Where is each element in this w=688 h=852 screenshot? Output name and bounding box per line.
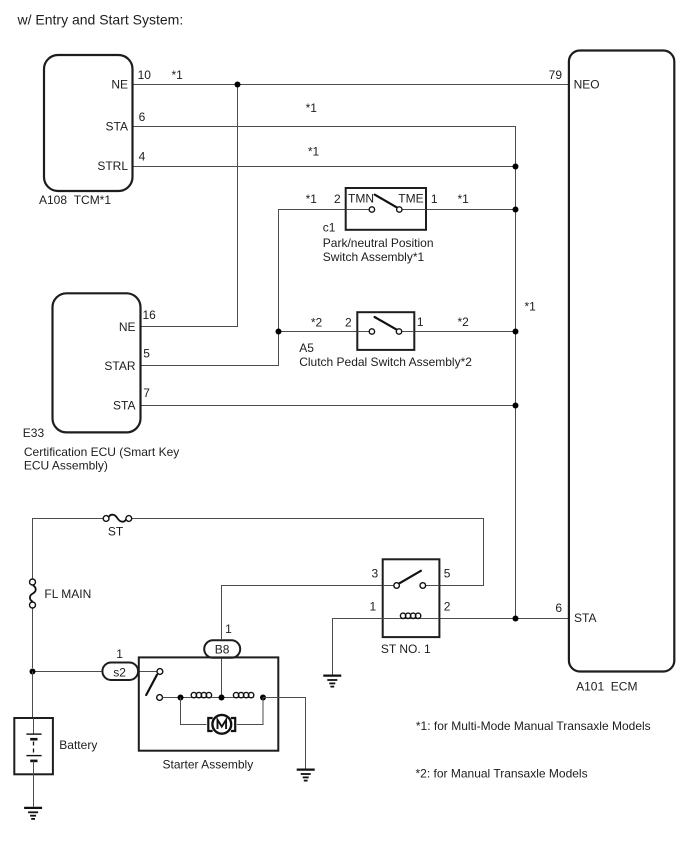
wire node down to battery [32,672,34,720]
svg-text:*2: *2 [311,316,323,330]
wire relay pin 1 to ground G3 [333,619,383,675]
svg-text:STA: STA [113,399,135,413]
relay coil wire [383,618,440,620]
svg-text:c1: c1 [323,221,336,235]
contact right [396,329,401,334]
svg-text:Switch Assembly*1: Switch Assembly*1 [323,250,425,264]
svg-text:6: 6 [139,110,146,124]
svg-text:2: 2 [444,599,451,613]
wire from E33 STAR pin 5 up to Park/neutral switch pin 2 [141,210,346,366]
lever [375,317,397,329]
svg-text:6: 6 [555,601,562,615]
svg-text:Certification ECU (Smart Key: Certification ECU (Smart Key [24,445,179,459]
svg-text:STAR: STAR [104,359,135,373]
connector B8 [204,640,240,658]
relay contact right [420,583,426,589]
svg-text:5: 5 [143,346,150,360]
wire STA bus to ECM pin 6 and relay pin 2 [439,618,569,620]
wire from battery node to s2 [33,671,104,673]
fuse s2 [102,663,138,681]
fuse ST [103,515,132,522]
node A junction on NE wire [235,82,241,88]
svg-text:*2: for Manual Transaxle Model: *2: for Manual Transaxle Models [416,767,588,781]
ECU A101 ECM [569,51,674,672]
wire left node down to motor [181,698,207,725]
svg-text:A5: A5 [299,341,314,355]
svg-text:2: 2 [334,192,341,206]
motor M1 starter motor [208,715,235,734]
connector A108 TCM [44,55,133,191]
node junction STA bus to ECM [513,616,519,622]
svg-text:1: 1 [225,622,232,636]
relay coil [400,613,405,618]
svg-text:NEO: NEO [574,77,600,91]
svg-text:*1: *1 [525,299,537,313]
node junction E33 STA on bus [513,403,519,409]
wire B8 down to starter winding node [221,658,223,698]
wire battery positive riser and ST feed [33,519,104,580]
switch c1 Park/neutral Position Switch Assembly [346,188,426,230]
svg-text:w/ Entry and Start System:: w/ Entry and Start System: [17,12,184,28]
svg-text:1: 1 [431,192,438,206]
svg-text:2: 2 [345,316,352,330]
svg-text:NE: NE [119,320,136,334]
svg-text:STA: STA [106,119,128,133]
svg-text:16: 16 [143,308,157,322]
relay ST NO. 1 [383,559,440,637]
fusible link FL MAIN [30,579,36,668]
starter assembly box [139,657,278,750]
svg-text:*1: *1 [172,68,184,82]
wire clutch switch pin 1 to vertical bus [414,331,515,333]
svg-text:79: 79 [549,68,563,82]
wire NE from TCM pin 10 to ECM pin 79 [133,84,569,86]
node junction clutch pin1 on bus [513,329,519,335]
svg-text:STRL: STRL [97,159,128,173]
node battery/s2 junction [30,669,36,675]
wire contact to coils [163,697,191,699]
svg-text:1: 1 [370,599,377,613]
svg-text:*1: *1 [306,101,318,115]
wire from NE node down to E33 NE pin 16 [141,85,238,327]
svg-text:TMN: TMN [348,191,374,205]
svg-text:1: 1 [417,315,424,329]
wire clutch switch pin 2 to node on STAR riser [279,331,358,333]
svg-text:TME: TME [398,191,423,205]
wire between coils [212,697,233,699]
contact left [369,329,374,334]
pull-in coil [191,692,212,697]
svg-text:ST NO. 1: ST NO. 1 [381,642,431,656]
svg-text:*1: *1 [458,192,470,206]
wire STA from TCM pin 6 to vertical bus [133,127,516,619]
svg-text:B8: B8 [215,642,230,656]
wire right node to ground G2 [263,698,306,769]
wire Park/neutral switch pin 1 to vertical bus [426,209,516,211]
wire STRL from TCM pin 4 to vertical bus [133,166,516,168]
svg-text:7: 7 [143,386,150,400]
svg-text:A108 TCM*1: A108 TCM*1 [39,193,111,207]
svg-text:Clutch Pedal Switch Assembly*2: Clutch Pedal Switch Assembly*2 [299,355,472,369]
svg-text:10: 10 [138,68,152,82]
wire right node down to motor [237,698,263,725]
node junction STRL on bus [513,164,519,170]
svg-text:Battery: Battery [59,738,97,752]
battery [14,718,53,774]
ground G1 (battery) [24,808,42,819]
ground G2 (starter) [297,770,315,781]
wire battery negative to ground G1 [33,774,35,807]
node junction clutch branch on STAR riser [276,329,282,335]
svg-text:E33: E33 [23,426,45,440]
lever [375,195,397,208]
svg-text:Starter Assembly: Starter Assembly [163,758,254,772]
relay lever [399,571,421,584]
svg-text:*1: *1 [306,192,318,206]
svg-text:*1: for Multi-Mode Manual Tran: *1: for Multi-Mode Manual Transaxle Mode… [416,719,651,733]
svg-text:*2: *2 [458,315,470,329]
starter magnetic switch contacts [146,669,163,701]
wire ST fuse to relay pin 5 [132,519,484,586]
svg-text:4: 4 [139,150,146,164]
contact TME [397,207,402,212]
wire B8 up to relay pin 3 [222,586,383,641]
svg-text:s2: s2 [113,665,126,679]
svg-text:3: 3 [372,566,379,580]
node right coil junction [260,695,266,701]
hold-in coil [233,692,254,697]
svg-text:ECU Assembly): ECU Assembly) [24,459,108,473]
switch A5 Clutch Pedal Switch Assembly [357,312,414,350]
node left coil junction [178,695,184,701]
svg-text:*1: *1 [308,145,320,159]
node junction park/neutral pin1 on bus [513,207,519,213]
relay contact left [394,583,400,589]
svg-text:NE: NE [111,78,128,92]
svg-text:STA: STA [574,611,596,625]
cell plates [26,733,41,735]
wire s2 to starter switch [138,671,157,673]
svg-text:1: 1 [116,647,123,661]
svg-text:5: 5 [444,566,451,580]
wire E33 STA pin 7 to vertical bus [141,405,516,407]
svg-text:FL MAIN: FL MAIN [44,587,91,601]
svg-text:ST: ST [108,525,124,539]
node center coil junction [219,695,225,701]
ground G3 (relay) [323,676,341,687]
svg-text:A101 ECM: A101 ECM [576,679,637,693]
lever [146,675,157,695]
contact TMN [369,207,374,212]
ECU E33 Certification ECU [53,293,141,432]
svg-text:Park/neutral Position: Park/neutral Position [323,236,434,250]
